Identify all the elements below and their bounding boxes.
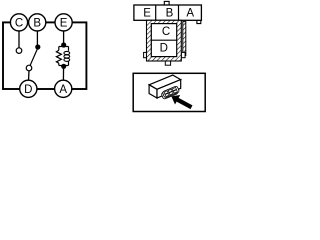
svg-text:E: E bbox=[60, 17, 68, 29]
svg-text:B: B bbox=[166, 8, 174, 20]
svg-text:D: D bbox=[24, 84, 32, 96]
svg-text:C: C bbox=[15, 17, 23, 29]
svg-text:A: A bbox=[186, 8, 194, 20]
svg-text:B: B bbox=[33, 17, 41, 29]
svg-text:A: A bbox=[59, 84, 67, 96]
svg-text:C: C bbox=[162, 26, 170, 38]
svg-text:D: D bbox=[160, 43, 168, 55]
svg-text:E: E bbox=[143, 8, 151, 20]
